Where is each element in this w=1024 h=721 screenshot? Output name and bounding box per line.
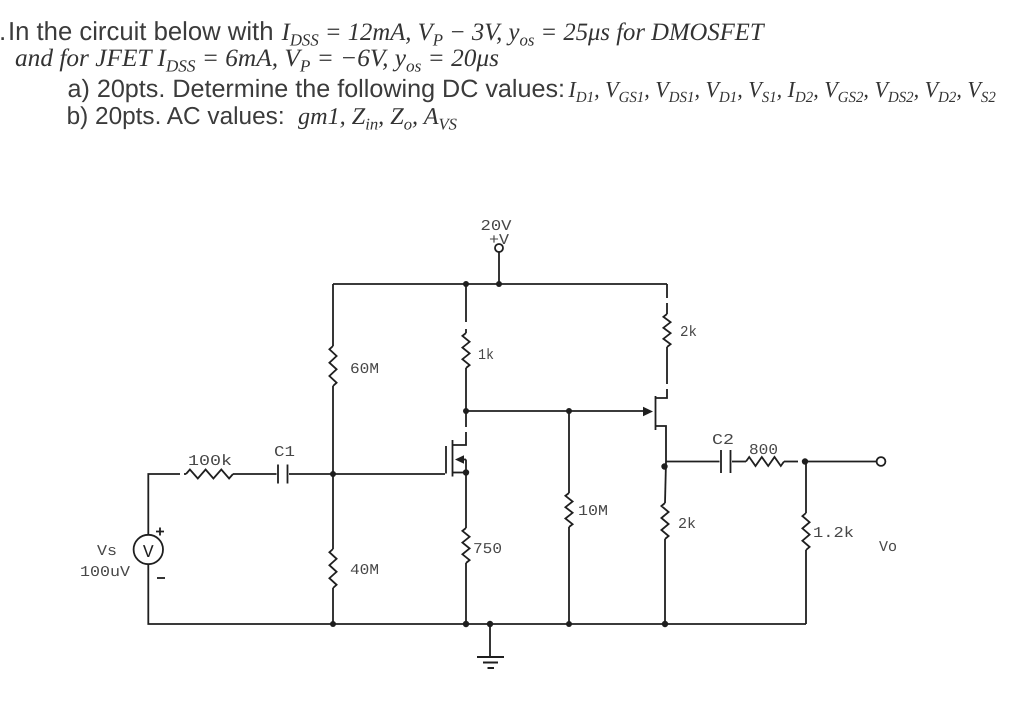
svg-text:C1: C1 [274,444,295,461]
node drain1 dot [463,408,469,414]
svg-text:V: V [143,543,154,563]
svg-text:.: . [0,16,6,46]
svg-text:100k: 100k [188,453,232,470]
plus sign [156,528,164,536]
svg-text:ID1, VGS1, VDS1, VD1, VS1, ID2: ID1, VGS1, VDS1, VD1, VS1, ID2, VGS2, VD… [568,77,997,106]
wire Vs top [148,474,180,535]
wire output node to 1.2k [805,462,807,514]
svg-text:2k: 2k [678,516,696,533]
wire 10M upper [568,411,570,493]
junction dot 10M top [566,408,572,414]
junction dot 10M-rail [566,621,572,627]
title line 4 [67,103,285,130]
supply terminal circle [495,244,503,252]
wire output node to terminal [805,461,877,463]
M2 gate arrow [643,407,653,416]
junction dot rail-supply [496,281,502,287]
resistor 60M [329,346,336,386]
svg-text:and for JFET IDSS = 6mA, VP =: and for JFET IDSS = 6mA, VP = −6V, yos =… [15,45,499,76]
top rail wire [333,283,667,285]
M2 source lead [656,426,667,462]
M2 drain lead [656,389,668,398]
M1 gate bar [445,446,447,474]
wire C1 to gate node [289,473,333,475]
resistor 2k drain [663,314,670,347]
resistor 2k source [661,503,668,539]
ground [477,624,504,668]
left branch upper wire [332,284,334,346]
M1 channel bar [452,440,454,477]
wire 2k to bottom rail [664,539,666,624]
M1 source dot [463,469,469,475]
wire 750 to bottom rail [465,563,467,624]
svg-text:1k: 1k [478,347,494,364]
junction dot 2k-rail [662,621,668,627]
wire 100k to C1 [233,473,277,475]
svg-text:1.2k: 1.2k [813,525,854,542]
resistor 1k [462,333,469,368]
M1 drain lead [453,432,467,445]
svg-text:a) 20pts. Determine the follow: a) 20pts. Determine the following DC val… [68,75,566,103]
wire C2 to 800 [732,461,746,463]
wire 10M lower [568,527,570,624]
resistor 40M [329,549,336,588]
junction dot rail-1k [463,281,469,287]
source Vs circle [134,535,163,564]
minus sign [157,577,165,579]
capacitor C2 [721,450,731,473]
wire 1k to drain node [465,368,467,411]
wire 60M to gate node [332,386,334,474]
svg-text:Vs: Vs [97,543,117,560]
title line 2 [15,45,499,76]
wire source1 to 750 [465,473,467,529]
resistor 100k [186,470,233,479]
resistor 1.2k [802,513,809,550]
wire drain1 to gate2 [466,410,643,412]
M1 substrate arrow [463,459,466,461]
M1 source lead [453,472,467,474]
supply stem wire [498,252,500,284]
node gate1 dot [330,471,336,477]
wire 1.2k to bottom rail [805,550,807,624]
svg-text:100uV: 100uV [80,564,130,581]
svg-text:+V: +V [489,232,509,249]
wire 40M to bottom rail [332,588,334,624]
svg-text:800: 800 [749,442,778,459]
wire Vs bottom [148,564,333,624]
svg-text:40M: 40M [350,562,379,579]
wire 800 to output node [784,461,798,463]
wire gate node to 40M [332,474,334,549]
svg-text:In the circuit below with: In the circuit below with [8,16,273,46]
svg-text:60M: 60M [350,361,379,378]
wire gate node to M1 gate [333,473,445,475]
junction dot 750-rail [463,621,469,627]
junction dot ground-rail [487,621,493,627]
junction dot source2 [661,463,667,469]
junction dot 40M-rail [330,621,336,627]
svg-text:10M: 10M [578,503,608,520]
transistor M2 JFET [643,347,667,462]
svg-text:2k: 2k [680,324,697,341]
1k branch upper wire [465,284,467,322]
bottom rail wire [333,623,806,625]
M2 channel bar [655,396,657,430]
title line 3 [68,75,566,103]
wire source2 to C2 [666,461,720,463]
svg-text:C2: C2 [712,432,734,449]
junction dot output [802,458,808,464]
resistor 10M [565,493,572,527]
svg-text:Vo: Vo [879,539,897,556]
svg-text:750: 750 [473,541,502,558]
output terminal circle [877,457,886,466]
resistor 800 [746,457,784,466]
wire source2 node down [665,462,666,504]
wire rail to 2k [666,284,668,298]
transistor M1 DMOSFET [446,411,469,477]
svg-text:gm1, Zin, Zo, AVS: gm1, Zin, Zo, AVS [298,104,457,133]
capacitor C1 [278,465,288,484]
resistor 750 [462,528,469,563]
svg-text:b) 20pts. AC values:: b) 20pts. AC values: [67,103,285,130]
